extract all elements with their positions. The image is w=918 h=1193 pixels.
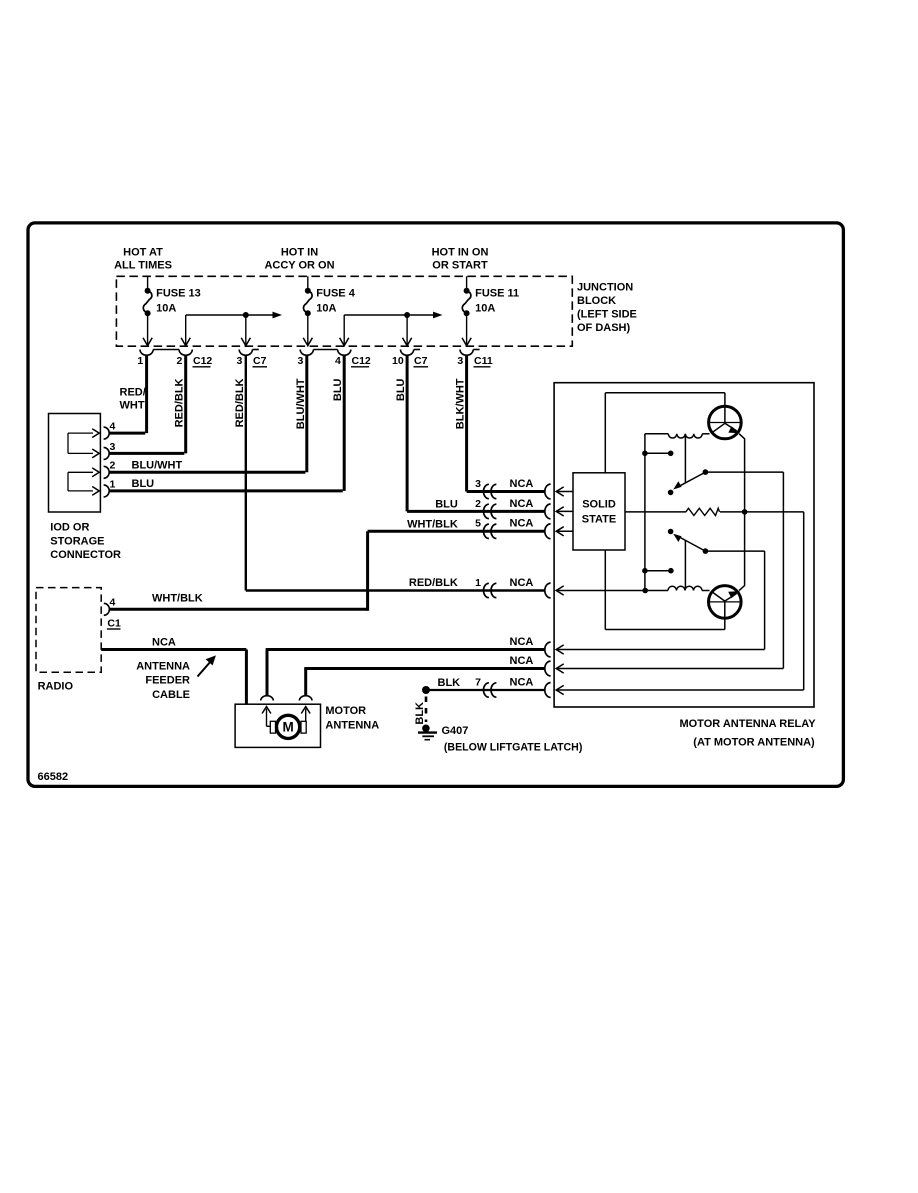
- svg-text:NCA: NCA: [510, 577, 534, 589]
- svg-text:CONNECTOR: CONNECTOR: [50, 549, 121, 561]
- svg-text:RED/: RED/: [120, 387, 146, 399]
- svg-text:ANTENNA: ANTENNA: [325, 720, 379, 732]
- svg-text:CABLE: CABLE: [152, 689, 190, 701]
- svg-text:2: 2: [475, 498, 481, 510]
- svg-text:BLK: BLK: [438, 677, 461, 689]
- svg-text:C12: C12: [193, 355, 212, 367]
- svg-text:RED/BLK: RED/BLK: [409, 577, 458, 589]
- svg-text:BLU: BLU: [132, 478, 155, 490]
- svg-text:10A: 10A: [156, 303, 176, 315]
- svg-text:FUSE 13: FUSE 13: [156, 288, 201, 300]
- svg-text:NCA: NCA: [510, 498, 534, 510]
- svg-text:4: 4: [335, 355, 341, 367]
- svg-text:STORAGE: STORAGE: [50, 536, 104, 548]
- svg-text:C12: C12: [352, 355, 371, 367]
- svg-text:BLK: BLK: [414, 702, 426, 725]
- svg-text:3: 3: [298, 355, 304, 367]
- svg-text:HOT IN: HOT IN: [281, 247, 318, 259]
- svg-text:BLOCK: BLOCK: [577, 295, 616, 307]
- svg-text:WHT: WHT: [120, 400, 145, 412]
- svg-text:NCA: NCA: [152, 636, 176, 648]
- svg-text:NCA: NCA: [510, 676, 534, 688]
- svg-text:G407: G407: [442, 725, 469, 737]
- svg-text:NCA: NCA: [510, 636, 534, 648]
- svg-text:FEEDER: FEEDER: [145, 675, 190, 687]
- svg-text:RED/BLK: RED/BLK: [174, 378, 186, 427]
- svg-text:BLU: BLU: [332, 378, 344, 401]
- svg-text:1: 1: [110, 478, 116, 490]
- svg-text:1: 1: [137, 355, 143, 367]
- svg-text:1: 1: [475, 577, 481, 589]
- svg-text:3: 3: [237, 355, 243, 367]
- svg-text:NCA: NCA: [510, 518, 534, 530]
- svg-text:(AT MOTOR ANTENNA): (AT MOTOR ANTENNA): [693, 737, 815, 749]
- svg-text:C11: C11: [474, 355, 493, 367]
- svg-text:M: M: [282, 720, 293, 735]
- svg-text:RADIO: RADIO: [38, 681, 74, 693]
- svg-text:IOD OR: IOD OR: [50, 522, 89, 534]
- svg-text:C7: C7: [414, 355, 428, 367]
- svg-text:5: 5: [475, 518, 481, 530]
- svg-text:3: 3: [475, 478, 481, 490]
- svg-text:OR START: OR START: [432, 259, 488, 271]
- svg-text:BLU/WHT: BLU/WHT: [132, 459, 183, 471]
- svg-text:3: 3: [457, 355, 463, 367]
- svg-text:OF DASH): OF DASH): [577, 322, 631, 334]
- svg-text:10A: 10A: [316, 303, 336, 315]
- svg-text:NCA: NCA: [510, 655, 534, 667]
- svg-text:ANTENNA: ANTENNA: [136, 661, 190, 673]
- svg-text:10: 10: [392, 355, 404, 367]
- svg-text:(LEFT SIDE: (LEFT SIDE: [577, 309, 637, 321]
- svg-text:SOLID: SOLID: [582, 499, 616, 511]
- svg-text:3: 3: [110, 441, 116, 453]
- svg-text:10A: 10A: [475, 303, 495, 315]
- svg-text:MOTOR ANTENNA RELAY: MOTOR ANTENNA RELAY: [679, 718, 816, 730]
- svg-text:FUSE 4: FUSE 4: [316, 288, 355, 300]
- svg-text:BLU/WHT: BLU/WHT: [295, 378, 307, 429]
- svg-text:7: 7: [475, 676, 481, 688]
- svg-text:2: 2: [176, 355, 182, 367]
- svg-text:ALL TIMES: ALL TIMES: [114, 259, 172, 271]
- svg-text:JUNCTION: JUNCTION: [577, 282, 633, 294]
- svg-text:HOT AT: HOT AT: [123, 247, 163, 259]
- svg-text:NCA: NCA: [510, 478, 534, 490]
- svg-text:4: 4: [110, 597, 116, 609]
- svg-text:4: 4: [110, 421, 116, 433]
- svg-text:C7: C7: [253, 355, 267, 367]
- svg-text:RED/BLK: RED/BLK: [234, 378, 246, 427]
- svg-text:66582: 66582: [38, 771, 69, 783]
- svg-text:BLU: BLU: [395, 378, 407, 401]
- svg-text:MOTOR: MOTOR: [325, 705, 366, 717]
- svg-text:BLU: BLU: [435, 498, 458, 510]
- svg-text:FUSE 11: FUSE 11: [475, 288, 519, 300]
- svg-text:(BELOW LIFTGATE LATCH): (BELOW LIFTGATE LATCH): [444, 742, 582, 754]
- svg-text:ACCY OR ON: ACCY OR ON: [264, 259, 334, 271]
- svg-text:HOT IN ON: HOT IN ON: [432, 247, 489, 259]
- svg-text:C1: C1: [107, 618, 121, 630]
- svg-text:BLK/WHT: BLK/WHT: [455, 378, 467, 429]
- svg-text:WHT/BLK: WHT/BLK: [407, 519, 458, 531]
- svg-text:WHT/BLK: WHT/BLK: [152, 592, 203, 604]
- svg-text:2: 2: [110, 460, 116, 472]
- svg-text:STATE: STATE: [582, 514, 616, 526]
